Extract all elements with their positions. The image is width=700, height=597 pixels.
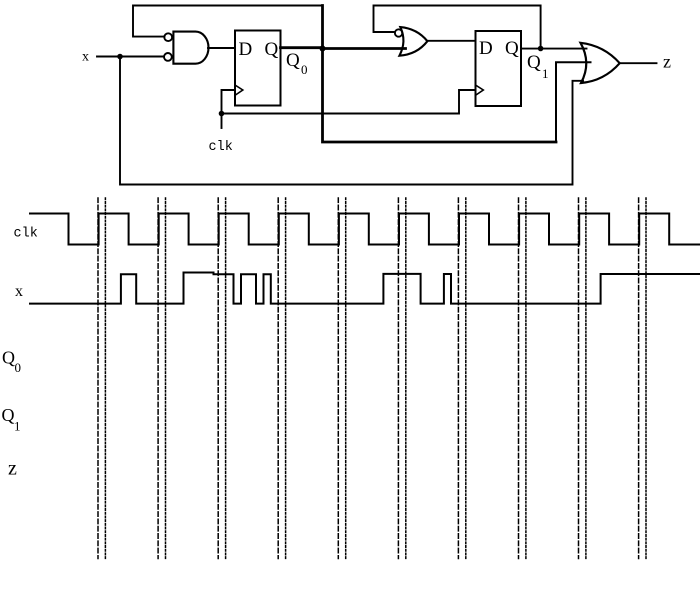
wire x feedback bottom loop to OR3 <box>120 57 583 185</box>
node Q0 junction dot <box>320 46 326 52</box>
wire Q0 riser to OR3 middle input <box>556 62 591 142</box>
svg-text:D: D <box>479 38 493 59</box>
svg-text:clk: clk <box>209 140 233 155</box>
x waveform <box>30 273 700 304</box>
node Q1 junction dot <box>538 46 544 52</box>
edge 4 dashed <box>277 198 279 559</box>
OR2 gate body <box>399 27 427 56</box>
svg-text:x: x <box>15 283 23 300</box>
edge 2 dotted <box>165 198 167 559</box>
svg-text:z: z <box>663 52 671 72</box>
svg-text:0: 0 <box>15 360 22 375</box>
clk waveform <box>30 214 700 245</box>
flip-flop U3 box <box>476 31 522 106</box>
wire Q0 feedback top loop to NAND upper input <box>133 6 323 37</box>
wire Q0 to OR2 lower input thick <box>323 47 406 50</box>
OR3 gate body <box>581 43 620 83</box>
svg-text:Q: Q <box>527 52 541 73</box>
flip-flop U2 box <box>235 31 281 106</box>
svg-text:Q: Q <box>2 405 15 425</box>
edge 4 dotted <box>285 198 287 559</box>
edge 8 dotted <box>525 198 527 559</box>
wire OR2 output to FF2 D <box>427 40 475 42</box>
wire NAND output to FF1 D <box>208 47 235 49</box>
edge 1 dotted <box>104 198 106 559</box>
svg-text:Q: Q <box>286 50 300 71</box>
svg-text:z: z <box>8 458 17 480</box>
wire clk to FF1 clock <box>222 90 236 114</box>
edge 6 dotted <box>405 198 407 559</box>
svg-text:D: D <box>239 39 253 60</box>
wire x input to NAND lower bubble <box>97 56 164 58</box>
edge 8 dashed <box>518 198 520 559</box>
flip-flop U3 clock triangle <box>476 85 484 95</box>
NAND U1 gate body <box>173 32 208 64</box>
wire clk stem <box>221 114 223 129</box>
wire Q1 feedback top loop to OR2 bubble <box>374 6 541 49</box>
svg-text:x: x <box>82 50 89 65</box>
edge 7 dotted <box>465 198 467 559</box>
edge 10 dashed <box>638 198 640 559</box>
edge 6 dashed <box>397 198 399 559</box>
svg-text:Q: Q <box>265 39 279 60</box>
edge 7 dashed <box>457 198 459 559</box>
svg-text:Q: Q <box>2 348 15 368</box>
NAND U1 input bubble top <box>164 33 172 41</box>
wire OR3 output <box>620 62 657 64</box>
edge 10 dotted <box>645 198 647 559</box>
flip-flop U2 clock triangle <box>235 85 243 95</box>
wire clk to FF2 clock <box>222 90 476 114</box>
edge 5 dotted <box>345 198 347 559</box>
svg-text:1: 1 <box>14 419 21 434</box>
svg-text:1: 1 <box>542 66 549 81</box>
OR2 input bubble <box>395 29 402 36</box>
dashed edge marker lines <box>98 198 646 559</box>
node clk junction dot <box>219 111 225 117</box>
edge 2 dashed <box>157 198 159 559</box>
edge 1 dashed <box>97 198 99 559</box>
node x junction dot <box>117 54 123 60</box>
edge 5 dashed <box>337 198 339 559</box>
edge 3 dotted <box>225 198 227 559</box>
svg-text:clk: clk <box>14 227 38 242</box>
svg-text:0: 0 <box>301 62 308 77</box>
wire Q0 vertical thick <box>323 6 557 143</box>
edge 3 dashed <box>217 198 219 559</box>
edge 9 dotted <box>585 198 587 559</box>
NAND U1 input bubble bottom <box>164 53 172 61</box>
wire Q1 output to OR3 <box>521 48 587 50</box>
svg-text:Q: Q <box>505 38 519 59</box>
edge 9 dashed <box>578 198 580 559</box>
wire Q0 output thick <box>281 46 323 49</box>
